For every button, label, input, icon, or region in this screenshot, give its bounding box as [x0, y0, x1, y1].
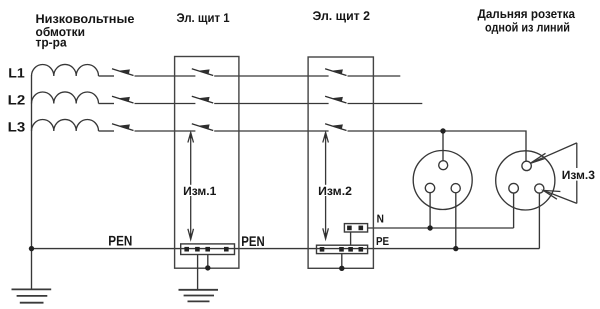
junction: PEN at left bus: [29, 246, 34, 251]
switch QF3 panel1 line L3: [192, 124, 213, 131]
wire L2 panel1 to panel2: [214, 103, 328, 105]
terminal strip PE panel2: [317, 245, 368, 253]
junction: socket1 N tap: [427, 225, 432, 230]
switch Q3 transformer side line L3: [112, 124, 134, 131]
wire L3 panel2 to socket feed corner: [348, 131, 527, 161]
terminal strip PEN panel1: [181, 244, 235, 255]
socket XS1 (near socket): [413, 151, 472, 210]
wire L2 switch to panel1: [135, 103, 196, 105]
wire: left vertical bus from L1 winding down to ground: [31, 76, 33, 290]
svg-text:L3: L3: [8, 119, 26, 134]
svg-text:L1: L1: [8, 66, 25, 81]
wire: socket 1 feed drop: [442, 131, 444, 161]
ground: left (transformer neutral): [12, 289, 52, 302]
svg-text:Изм.1: Изм.1: [183, 184, 217, 198]
wire L1 panel1 to panel2: [214, 75, 328, 77]
wire: socket2 N drop: [513, 193, 515, 228]
svg-text:Дальняя розетка: Дальняя розетка: [478, 7, 576, 21]
switch Q2 transformer side line L2: [112, 96, 134, 103]
svg-text:PEN: PEN: [241, 233, 264, 249]
wire L1 winding to switch: [99, 75, 115, 77]
junction: panel2 enclosure bond: [339, 266, 344, 271]
svg-text:Изм.2: Изм.2: [318, 184, 352, 198]
svg-text:PE: PE: [376, 236, 389, 248]
measurement arrow Изм.2 (phase to PEN in panel2): [323, 133, 329, 239]
svg-text:Эл. щит 1: Эл. щит 1: [177, 11, 230, 25]
wire: socket1 PE drop: [455, 193, 457, 249]
panel 2 enclosure (Эл. щит 2): [308, 57, 373, 268]
svg-text:Эл. щит 2: Эл. щит 2: [313, 9, 371, 23]
transformer winding L2: [32, 92, 99, 104]
wire: PE strip to panel2 enclosure: [341, 254, 343, 269]
wire L3 switch to panel1: [135, 130, 196, 132]
svg-text:тр-ра: тр-ра: [36, 36, 68, 50]
panel 1 enclosure (Эл. щит 1): [175, 57, 239, 269]
switch QF6 panel2 line L3: [325, 124, 346, 131]
svg-text:PEN: PEN: [108, 232, 132, 248]
wire: panel1 strip to ground: [197, 255, 199, 290]
ground: panel1: [179, 290, 219, 302]
terminal strip N panel2: [344, 224, 367, 232]
wire: PEN bus: [32, 248, 540, 250]
svg-text:одной из линий: одной из линий: [485, 21, 570, 35]
wire L3 winding to switch: [99, 130, 115, 132]
svg-text:Изм.3: Изм.3: [562, 168, 596, 182]
switch QF4 panel2 line L1: [325, 69, 346, 76]
wire L1 stub after panel2: [348, 75, 401, 77]
switch QF5 panel2 line L2: [325, 96, 346, 103]
junction: socket feed tap on L3: [440, 128, 445, 133]
svg-text:N: N: [377, 213, 384, 225]
switch Q1 transformer side line L1: [112, 69, 134, 76]
junction: socket1 PE tap: [453, 246, 458, 251]
measurement pointer Изм.3 (socket phase and PE pins): [531, 143, 577, 204]
wire: panel1 strip to enclosure: [207, 255, 209, 268]
switch QF1 panel1 line L1: [192, 69, 213, 76]
junction: panel1 enclosure bond: [205, 265, 210, 270]
svg-text:L2: L2: [8, 93, 26, 108]
switch QF2 panel1 line L2: [192, 96, 213, 103]
wire: socket2 PE drop: [538, 193, 540, 249]
socket XS2 (far socket, Дальняя розетка): [496, 151, 555, 210]
wire L1 switch to panel1: [135, 75, 196, 77]
wire: N line: [368, 227, 514, 229]
wire: socket1 N drop: [429, 193, 431, 228]
transformer winding L1: [32, 64, 99, 76]
transformer winding L3: [32, 119, 99, 131]
wire L2 winding to switch: [99, 103, 115, 105]
wire: N strip to PE strip link: [350, 232, 352, 245]
measurement arrow Изм.1 (phase to PEN in panel1): [188, 133, 194, 240]
wire L2 stub after panel2: [348, 103, 423, 105]
wire L3 panel1 to panel2: [214, 130, 328, 132]
